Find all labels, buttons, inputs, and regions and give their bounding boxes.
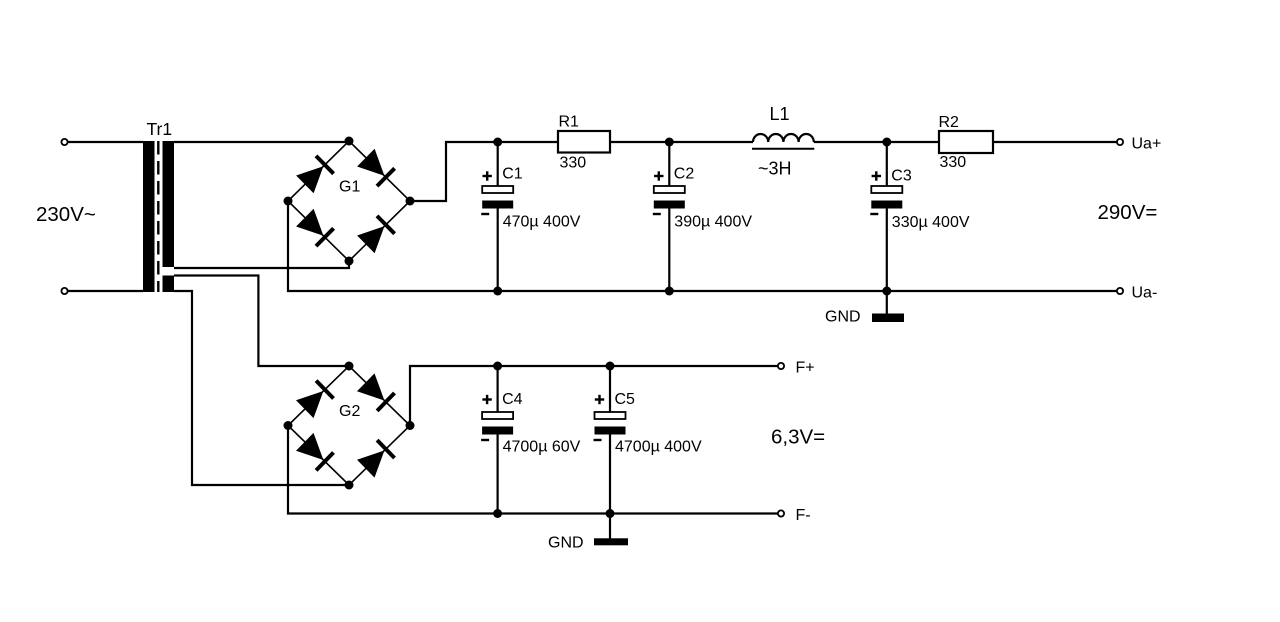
- svg-text:C2: C2: [674, 166, 695, 183]
- diode G1 upper-right: [357, 149, 395, 186]
- svg-text:R1: R1: [559, 114, 580, 131]
- svg-text:C1: C1: [502, 166, 523, 183]
- bridge rectifier G1: [284, 137, 415, 266]
- wire R2 to Ua+ terminal: [993, 141, 1117, 143]
- diode G2 upper-right: [357, 373, 395, 411]
- junction dot C5 bottom: [606, 509, 615, 518]
- svg-text:F-: F-: [796, 507, 811, 524]
- junction dot G1 left vertex: [284, 197, 293, 206]
- svg-text:290V=: 290V=: [1098, 201, 1158, 224]
- Tr1 core (dashed): [157, 141, 159, 292]
- svg-text:Tr1: Tr1: [147, 119, 173, 139]
- C3 polarity minus: [870, 213, 878, 215]
- C4 polarity minus: [481, 439, 489, 441]
- junction dot C3 bottom: [882, 287, 891, 296]
- svg-text:330: 330: [560, 154, 587, 171]
- terminal F+: [778, 363, 784, 369]
- svg-text:GND: GND: [548, 535, 584, 552]
- diode G1 lower-left: [296, 209, 334, 246]
- junction dot G1 top vertex: [345, 137, 354, 146]
- ground symbol GND upper: [825, 291, 904, 326]
- svg-text:L1: L1: [770, 104, 790, 124]
- C2 polarity plus: [654, 171, 663, 180]
- junction dot C1 top: [493, 138, 502, 147]
- junction dot G1 bottom vertex: [345, 257, 354, 266]
- wire secondary1 top to G1 top vertex: [174, 141, 349, 143]
- svg-text:Ua+: Ua+: [1132, 136, 1162, 153]
- svg-text:6,3V=: 6,3V=: [771, 426, 825, 449]
- junction dot C1 bottom: [493, 287, 502, 296]
- wire L1 to C3 node: [814, 141, 887, 143]
- svg-text:4700µ 400V: 4700µ 400V: [615, 439, 702, 456]
- ground symbol GND lower: [548, 514, 628, 552]
- svg-text:C3: C3: [891, 168, 912, 185]
- junction dot G2 left vertex: [284, 421, 293, 430]
- diode G2 lower-left: [296, 433, 334, 471]
- terminal Ua-: [1117, 288, 1123, 294]
- terminal 230V line 1: [61, 139, 67, 145]
- C5 polarity minus: [594, 439, 602, 441]
- svg-text:390µ 400V: 390µ 400V: [674, 214, 752, 231]
- wire F+ rail C4 to C5: [498, 365, 610, 367]
- svg-text:4700µ 60V: 4700µ 60V: [503, 439, 581, 456]
- wire secondary1 bottom to G1 bottom vertex: [174, 261, 349, 268]
- terminal 230V line 2: [61, 288, 67, 294]
- wire secondary2 bottom to G2 bottom vertex: [174, 291, 349, 485]
- wire F+ rail C5 to F+ terminal: [610, 365, 778, 367]
- wire G1 right vertex up to positive rail: [410, 142, 498, 201]
- svg-text:C4: C4: [502, 391, 523, 408]
- transformer Tr1: [143, 119, 174, 292]
- svg-text:Ua-: Ua-: [1132, 285, 1158, 302]
- capacitor C4: [481, 366, 581, 514]
- Tr1 secondary winding 1 bar: [163, 141, 175, 267]
- L1 core line: [752, 148, 814, 150]
- svg-text:G2: G2: [339, 403, 360, 420]
- wire R1 to C2 node: [610, 141, 669, 143]
- C3 polarity plus: [872, 171, 881, 180]
- diode G1 lower-right: [357, 216, 395, 253]
- junction dot G1 right vertex: [406, 197, 415, 206]
- junction dot C4 top: [493, 362, 502, 371]
- diode G2 upper-left: [296, 381, 334, 419]
- junction dot G2 top vertex: [345, 362, 354, 371]
- Tr1 primary winding bar: [143, 141, 155, 292]
- junction dot C2 top: [665, 138, 674, 147]
- C1 polarity minus: [481, 213, 489, 215]
- wire G2 right vertex up to F+ rail: [410, 366, 498, 426]
- C2 polarity minus: [653, 213, 661, 215]
- junction dot C4 bottom: [493, 509, 502, 518]
- wire 230V bottom terminal to transformer primary: [68, 290, 143, 292]
- capacitor C2: [653, 142, 753, 291]
- wire C2 node to L1: [669, 141, 753, 143]
- diode G2 lower-right: [357, 440, 395, 478]
- wire secondary2 top to G2 top vertex: [174, 276, 349, 367]
- terminal Ua+: [1117, 139, 1123, 145]
- bridge rectifier G2: [284, 362, 415, 490]
- wire positive rail C1 to R1: [498, 141, 558, 143]
- C5 polarity plus: [595, 395, 604, 404]
- junction dot C5 top: [606, 362, 615, 371]
- svg-text:C5: C5: [615, 391, 636, 408]
- capacitor C3: [870, 142, 970, 291]
- svg-text:F+: F+: [796, 360, 815, 377]
- junction dot C3 top: [882, 138, 891, 147]
- junction dot G2 bottom vertex: [345, 481, 354, 490]
- wire G1 left vertex down to negative rail: [288, 201, 1117, 291]
- resistor R2: [939, 114, 994, 171]
- svg-text:330µ 400V: 330µ 400V: [892, 214, 970, 231]
- capacitor C5: [594, 366, 702, 514]
- Tr1 secondary winding 2 bar: [163, 276, 175, 293]
- svg-text:~3H: ~3H: [758, 159, 792, 179]
- svg-text:470µ 400V: 470µ 400V: [503, 214, 581, 231]
- svg-text:R2: R2: [939, 114, 960, 131]
- terminal F-: [778, 510, 784, 516]
- diode G1 upper-left: [296, 156, 334, 193]
- C4 polarity plus: [482, 395, 491, 404]
- junction dot C2 bottom: [665, 287, 674, 296]
- svg-text:GND: GND: [825, 309, 861, 326]
- inductor L1: [752, 104, 814, 179]
- svg-text:330: 330: [940, 154, 967, 171]
- svg-text:G1: G1: [339, 179, 360, 196]
- wire 230V top terminal to transformer primary: [68, 141, 143, 143]
- resistor R1: [558, 114, 610, 172]
- capacitor C1: [481, 142, 581, 291]
- svg-text:230V~: 230V~: [36, 203, 96, 226]
- wire C3 node to R2: [887, 141, 939, 143]
- C1 polarity plus: [483, 171, 492, 180]
- junction dot G2 right vertex: [406, 421, 415, 430]
- wire G2 left vertex down to F- rail: [288, 426, 778, 514]
